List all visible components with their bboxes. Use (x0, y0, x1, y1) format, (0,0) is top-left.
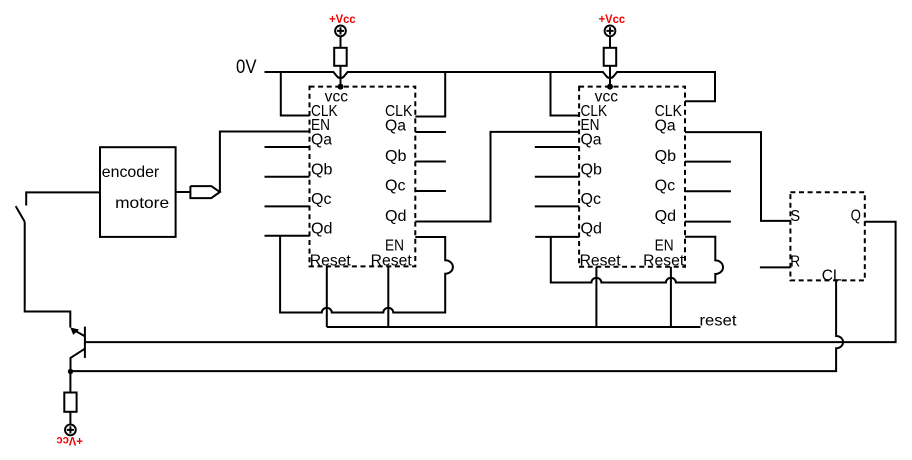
encoder box (100, 147, 176, 237)
svg-text:Qd: Qd (655, 208, 677, 225)
svg-text:reset: reset (700, 313, 738, 330)
wire U3 R stub (760, 266, 791, 268)
supply +Vcc V1 (335, 26, 346, 48)
wire U1 Reset right drop (387, 266, 389, 327)
wire 0V rail (265, 72, 716, 101)
latch U3 body (790, 192, 864, 280)
svg-text:CL: CL (822, 267, 842, 284)
wire U1 Qa left stub (265, 146, 310, 148)
wire U3 CL to Q1 collector line (71, 280, 844, 371)
wire U2 Qc left stub (535, 205, 579, 207)
svg-text:Qd: Qd (311, 220, 333, 237)
svg-text:R: R (790, 253, 800, 270)
svg-text:Qd: Qd (385, 208, 407, 225)
encoder output pennant (176, 186, 220, 198)
wire rail riser to U2 CLK left (551, 72, 580, 116)
wire R1 to U1 vcc (340, 66, 342, 87)
wire reset bus (327, 326, 701, 328)
supply +Vcc V3 (65, 425, 76, 436)
wire U2 Qd right stub (685, 221, 731, 223)
wire U2 Qc right stub (685, 190, 731, 192)
wire U2 Qa left stub (535, 146, 579, 148)
resistor R2 (604, 48, 617, 66)
wire encoder left to switch (26, 192, 100, 205)
node U2 vcc junction (607, 84, 613, 90)
svg-text:Reset: Reset (643, 252, 685, 269)
switch SW1 blade (16, 206, 25, 222)
svg-text:Qd: Qd (581, 220, 603, 237)
svg-text:Qb: Qb (385, 148, 407, 165)
svg-text:Reset: Reset (371, 252, 413, 269)
wire U1 Qc left stub (265, 205, 310, 207)
wire U2 Qd to U2 EN bottom bus (551, 237, 723, 283)
wire rail riser to U1 CLK left (281, 72, 310, 116)
counter U2 body (579, 87, 685, 267)
svg-text:Reset: Reset (310, 252, 352, 269)
wire U1 Qb left stub (265, 176, 310, 178)
wire U1 Qd left stub (265, 235, 310, 237)
svg-text:S: S (790, 208, 800, 225)
svg-text:motore: motore (115, 195, 169, 212)
svg-text:Qb: Qb (311, 161, 333, 178)
svg-text:Qc: Qc (655, 177, 676, 194)
wire U1 Qc right stub (415, 190, 446, 192)
wire U1 Reset left drop (326, 266, 328, 327)
wire encoder pennant to U1 EN (220, 132, 310, 193)
wire U2 Qa right to U3 S (685, 132, 790, 221)
node Q1 collector junction (68, 369, 73, 374)
svg-text:Qc: Qc (385, 177, 406, 194)
wire R3 to V3 (69, 412, 71, 425)
wire U2 Qd left stub (535, 236, 579, 238)
svg-text:Qc: Qc (581, 191, 602, 208)
svg-text:Qa: Qa (311, 132, 332, 149)
counter U1 body (310, 87, 416, 267)
node U1 vcc junction (338, 84, 344, 90)
resistor R1 (334, 48, 347, 66)
svg-text:+Vcc: +Vcc (56, 434, 83, 448)
wire U2 Qb left stub (535, 176, 579, 178)
wire rail riser to U1 CLK right (415, 72, 445, 117)
transistor Q1 (70, 327, 85, 372)
svg-text:+Vcc: +Vcc (329, 12, 356, 26)
svg-text:Qb: Qb (655, 148, 677, 165)
svg-text:Q: Q (851, 208, 861, 225)
svg-text:Qb: Qb (581, 161, 603, 178)
svg-text:+Vcc: +Vcc (599, 12, 626, 26)
wire U1 Qa right stub (415, 131, 446, 133)
svg-text:0V: 0V (236, 57, 257, 78)
supply +Vcc V2 (605, 26, 616, 48)
svg-text:encoder: encoder (102, 164, 160, 181)
wire U2 Reset left drop (595, 267, 597, 327)
wire R2 to U2 vcc (609, 66, 611, 87)
svg-text:Qa: Qa (581, 132, 602, 149)
wire U1 Qd to U1 EN bottom bus (280, 236, 453, 313)
wire U3 Q to Q1 base (85, 222, 896, 342)
svg-text:Qa: Qa (655, 117, 676, 134)
wire U1 Qd right to U2 EN (415, 132, 579, 222)
svg-text:Reset: Reset (580, 252, 622, 269)
resistor R3 (64, 393, 76, 412)
svg-text:Qc: Qc (311, 191, 332, 208)
wire U1 Qb right stub (415, 161, 446, 163)
svg-text:Qa: Qa (385, 117, 406, 134)
wire switch to Q1 emitter (25, 222, 71, 328)
wire U2 Reset right drop (670, 267, 672, 327)
wire Q1 collector to R3 (69, 372, 71, 393)
wire U2 Qb right stub (685, 161, 731, 163)
